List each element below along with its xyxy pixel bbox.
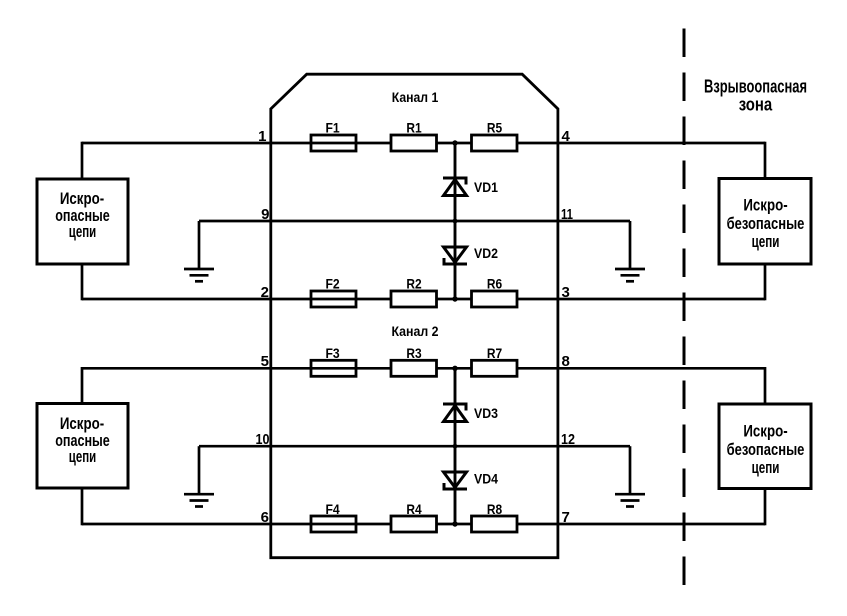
svg-text:F3: F3 <box>326 345 340 361</box>
svg-text:8: 8 <box>562 353 570 370</box>
fuse F4 <box>311 516 356 532</box>
wire right box2 bottom lead <box>764 488 767 525</box>
wire left box2 bottom lead <box>81 488 84 526</box>
resistor R7 <box>472 360 518 376</box>
svg-text:цепи: цепи <box>69 223 96 241</box>
wire zener column channel 2 <box>454 368 457 524</box>
wire row 10-12 <box>199 445 630 448</box>
svg-text:цепи: цепи <box>752 459 780 477</box>
resistor R3 <box>391 360 437 376</box>
svg-text:4: 4 <box>562 128 571 145</box>
svg-text:10: 10 <box>256 431 270 448</box>
zener diode VD4 <box>444 472 468 489</box>
svg-text:R5: R5 <box>487 120 502 136</box>
resistor R6 <box>472 291 518 307</box>
svg-text:Канал 1: Канал 1 <box>392 90 439 106</box>
svg-text:R8: R8 <box>487 501 502 517</box>
svg-text:зона: зона <box>739 95 773 115</box>
svg-text:7: 7 <box>562 509 570 526</box>
svg-text:R3: R3 <box>406 345 421 361</box>
svg-text:R4: R4 <box>406 501 421 517</box>
wire row 5-8 <box>82 367 765 370</box>
svg-text:безопасные: безопасные <box>727 441 805 459</box>
svg-text:R1: R1 <box>406 120 421 136</box>
svg-text:Искро-: Искро- <box>60 415 104 433</box>
svg-text:F1: F1 <box>326 120 340 136</box>
svg-text:6: 6 <box>261 509 269 526</box>
ground GND2 right channel 1 <box>615 221 645 281</box>
svg-text:12: 12 <box>561 431 575 448</box>
svg-text:цепи: цепи <box>69 448 96 466</box>
svg-text:2: 2 <box>261 284 269 301</box>
ground GND4 right channel 2 <box>615 446 645 506</box>
resistor R2 <box>391 291 437 307</box>
wire right box2 top lead <box>764 367 767 404</box>
zener diode VD1 <box>443 178 467 196</box>
svg-text:Искро-: Искро- <box>743 197 787 215</box>
wire row 6-7 <box>82 523 765 526</box>
zener diode VD3 <box>443 404 467 422</box>
resistor R1 <box>391 135 437 151</box>
svg-text:Искро-: Искро- <box>60 190 104 208</box>
fuse F2 <box>311 291 356 307</box>
wire left box1 top lead <box>81 142 84 179</box>
svg-text:1: 1 <box>258 128 266 145</box>
resistor R4 <box>391 516 437 532</box>
wire left box2 top lead <box>81 367 84 404</box>
wire right box1 top lead <box>764 142 767 179</box>
wire left box1 bottom lead <box>81 264 84 301</box>
svg-text:безопасные: безопасные <box>727 215 805 233</box>
svg-text:VD4: VD4 <box>474 471 498 487</box>
block hazardous circuits left channel 1 <box>37 179 128 264</box>
block intrinsically safe circuits right channel 2 <box>719 404 811 489</box>
svg-text:VD3: VD3 <box>474 405 498 421</box>
svg-text:F2: F2 <box>326 276 340 292</box>
wire row 9-11 <box>199 220 630 223</box>
wire zener column channel 1 <box>454 143 457 299</box>
svg-text:F4: F4 <box>326 501 340 517</box>
svg-text:9: 9 <box>261 206 269 223</box>
fuse F3 <box>311 360 356 376</box>
resistor R5 <box>472 135 518 151</box>
svg-text:цепи: цепи <box>752 233 780 251</box>
label Взрывоопасная зона <box>704 77 807 115</box>
svg-text:R7: R7 <box>487 345 502 361</box>
wire row 2-3 <box>82 298 765 301</box>
barrier enclosure outline U1 <box>271 74 558 558</box>
ground GND3 left channel 2 <box>184 446 214 506</box>
svg-text:Искро-: Искро- <box>743 423 787 441</box>
svg-text:5: 5 <box>261 353 269 370</box>
svg-text:VD1: VD1 <box>474 179 498 195</box>
svg-text:R2: R2 <box>406 276 421 292</box>
svg-text:11: 11 <box>561 206 573 223</box>
wire row 1-4 <box>82 142 765 145</box>
svg-text:Канал 2: Канал 2 <box>392 324 439 340</box>
svg-text:R6: R6 <box>487 276 502 292</box>
node junction dots <box>452 140 457 526</box>
explosive zone boundary dashed line <box>683 29 686 586</box>
ground GND1 left channel 1 <box>184 221 214 281</box>
zener diode VD2 <box>444 247 468 264</box>
svg-text:Взрывоопасная: Взрывоопасная <box>704 77 807 97</box>
fuse F1 <box>311 135 356 151</box>
block intrinsically safe circuits right channel 1 <box>719 179 811 265</box>
block hazardous circuits left channel 2 <box>37 404 128 489</box>
resistor R8 <box>472 516 518 532</box>
svg-text:3: 3 <box>562 284 570 301</box>
svg-text:VD2: VD2 <box>474 245 498 261</box>
wire right box1 bottom lead <box>764 264 767 301</box>
